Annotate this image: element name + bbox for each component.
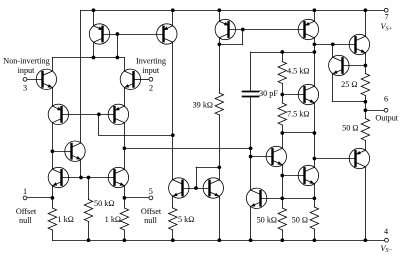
svg-text:50 kΩ: 50 kΩ [257,215,277,224]
svg-text:7: 7 [384,12,388,21]
svg-text:50 Ω: 50 Ω [292,215,308,224]
svg-text:6: 6 [384,94,388,103]
svg-text:5: 5 [149,187,153,196]
svg-text:4: 4 [384,227,388,236]
svg-text:39 kΩ: 39 kΩ [193,101,213,110]
svg-text:null: null [144,216,157,225]
svg-text:Non-inverting: Non-inverting [3,56,49,65]
svg-text:4.5 kΩ: 4.5 kΩ [287,67,309,76]
svg-text:input: input [142,66,160,75]
svg-text:Inverting: Inverting [136,56,166,65]
svg-text:3: 3 [23,83,27,92]
svg-text:5 kΩ: 5 kΩ [178,215,194,224]
svg-text:1 kΩ: 1 kΩ [58,215,74,224]
svg-text:input: input [18,66,36,75]
svg-text:25 Ω: 25 Ω [341,80,357,89]
svg-text:1 kΩ: 1 kΩ [105,215,121,224]
svg-text:Offset: Offset [141,207,162,216]
svg-text:30 pF: 30 pF [259,89,278,98]
svg-text:1: 1 [23,187,27,196]
svg-text:2: 2 [149,83,153,92]
svg-text:null: null [19,216,32,225]
svg-text:Offset: Offset [16,207,37,216]
svg-text:50 kΩ: 50 kΩ [94,199,114,208]
svg-text:Output: Output [375,113,398,122]
svg-text:50 Ω: 50 Ω [342,123,358,132]
svg-text:7.5 kΩ: 7.5 kΩ [287,109,309,118]
